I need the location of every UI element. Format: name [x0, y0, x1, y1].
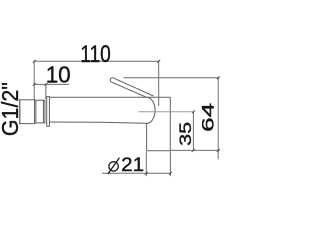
svg-text:G1/2": G1/2" [0, 82, 23, 136]
svg-text:21: 21 [121, 154, 144, 176]
svg-text:35: 35 [176, 122, 195, 146]
svg-text:110: 110 [80, 41, 111, 68]
svg-text:10: 10 [46, 61, 71, 87]
svg-text:64: 64 [200, 103, 218, 132]
